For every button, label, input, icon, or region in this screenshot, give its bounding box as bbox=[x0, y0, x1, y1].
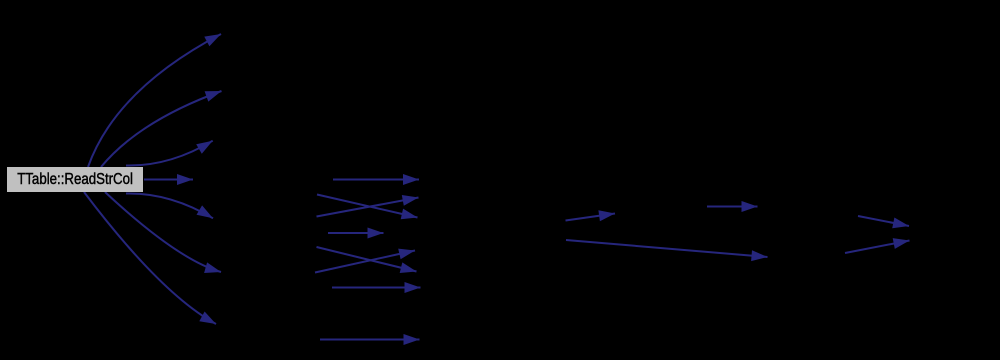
svg-text:TTable::ReadStrCol: TTable::ReadStrCol bbox=[17, 171, 133, 188]
